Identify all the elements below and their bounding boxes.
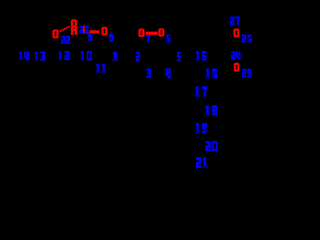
label 1 [113,52,118,61]
hashed bond O22-O23 [60,26,70,32]
oxygen O6 symbol [159,29,165,37]
label 8 (C8) [89,33,93,41]
label 26 (O26) [242,35,252,43]
label 9 (O9) [109,34,113,41]
vertical bond stub at C8 [83,26,85,34]
label 14 [19,52,29,61]
label 2 [136,52,140,61]
label 3 [147,69,151,78]
peroxide bond O7-O6 [146,32,158,35]
oxygen O7 symbol [139,29,145,37]
oxygen O26 symbol [234,29,240,38]
label 22 (O22) [61,36,70,44]
label 5 [177,52,181,61]
label 20 [206,141,218,151]
label 23 (O23) [80,26,89,33]
bond fragment near C8 [81,28,83,31]
label 6 (O6) [167,35,171,43]
label 13 [35,52,45,61]
label 18 [205,105,217,115]
label 27 (C27) [230,17,240,26]
label 17 [195,87,207,97]
label 4 [166,69,171,79]
label 10 [81,51,92,60]
hydroperoxide hydrogen H symbol [71,27,77,34]
bond C8 to O9 [89,30,99,33]
label 19 [196,123,207,133]
label 24 (C24) [231,52,240,60]
label 7 (O7) [146,35,150,42]
label 16 [206,69,217,79]
label 11 [96,64,105,73]
oxygen O9 symbol [102,27,108,35]
oxygen O22 symbol [53,30,59,39]
label 21 [196,157,207,168]
oxygen O25 symbol [234,63,239,72]
label 12 [59,51,70,60]
hydroperoxide oxygen O23 symbol [71,20,77,28]
label 15 [196,51,206,60]
label 25 (O25) [242,69,252,77]
